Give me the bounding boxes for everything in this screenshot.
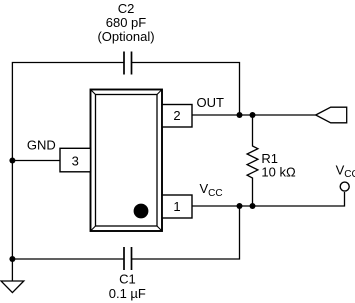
- svg-text:1: 1: [173, 199, 180, 214]
- svg-text:OUT: OUT: [197, 95, 225, 110]
- svg-text:C1: C1: [119, 272, 136, 287]
- svg-text:C2: C2: [118, 1, 135, 16]
- svg-text:2: 2: [173, 108, 180, 123]
- svg-text:10 kΩ: 10 kΩ: [261, 165, 296, 180]
- svg-text:0.1 µF: 0.1 µF: [109, 286, 146, 301]
- svg-text:680 pF: 680 pF: [106, 15, 147, 30]
- svg-text:3: 3: [72, 153, 79, 168]
- svg-text:GND: GND: [27, 137, 56, 152]
- svg-text:(Optional): (Optional): [97, 29, 154, 44]
